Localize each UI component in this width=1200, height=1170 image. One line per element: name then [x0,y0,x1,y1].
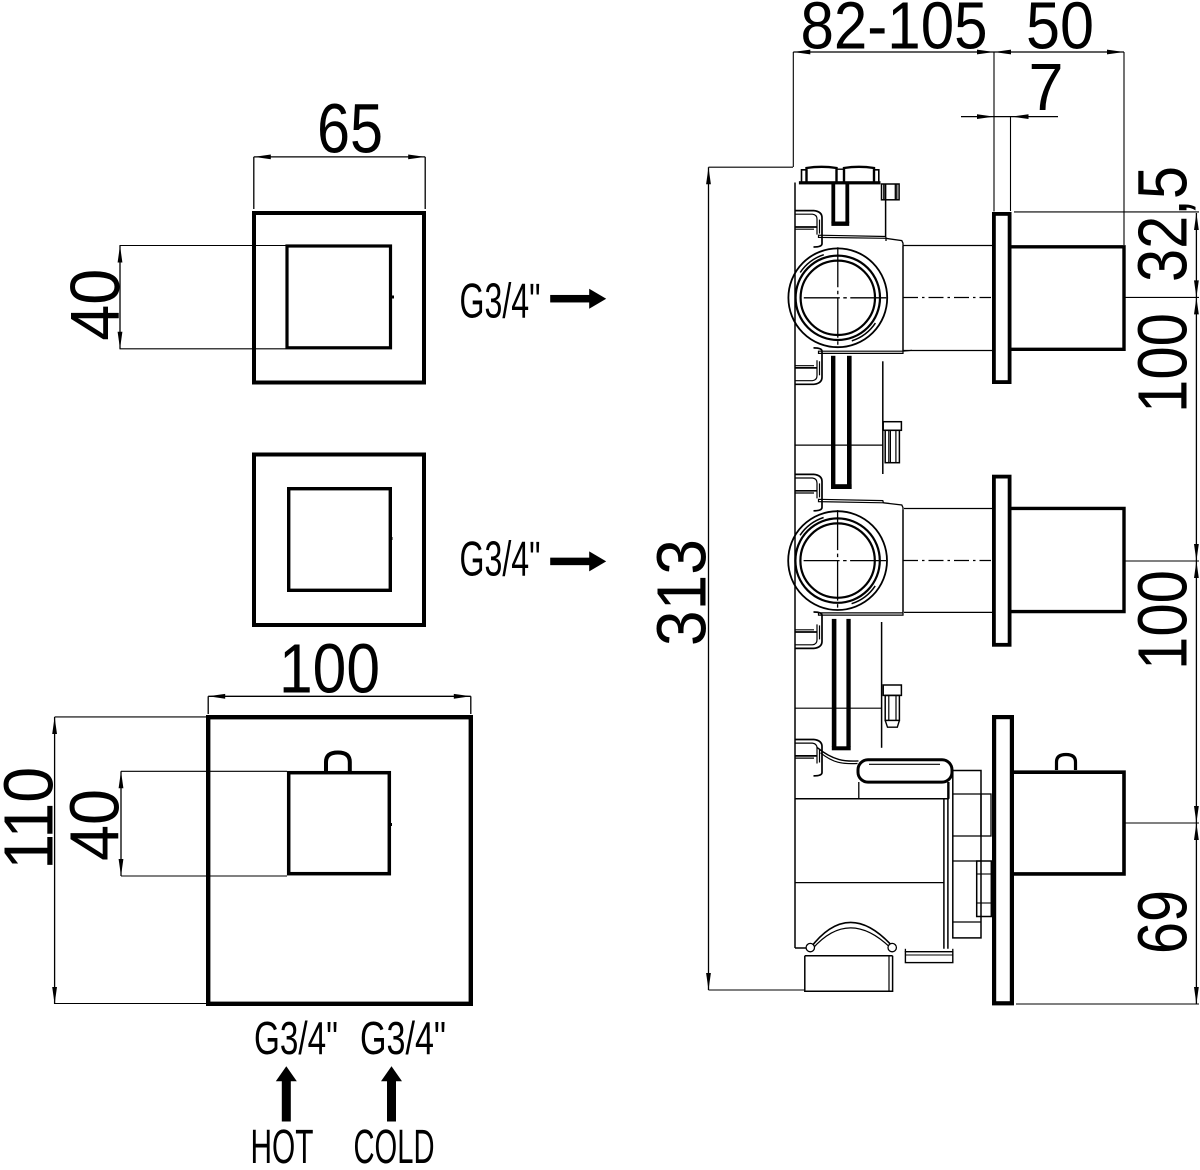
svg-text:G3/4": G3/4" [360,1012,446,1064]
svg-text:100: 100 [279,630,380,708]
svg-text:100: 100 [1124,313,1200,413]
svg-text:G3/4": G3/4" [460,533,541,587]
svg-text:HOT: HOT [251,1120,314,1165]
svg-text:100: 100 [1124,570,1200,670]
svg-text:COLD: COLD [354,1120,435,1165]
svg-text:40: 40 [56,789,134,861]
svg-text:82-105: 82-105 [801,0,988,64]
svg-text:7: 7 [1029,50,1064,125]
svg-text:32,5: 32,5 [1124,166,1200,282]
svg-text:313: 313 [643,539,721,646]
svg-text:G3/4": G3/4" [254,1012,338,1064]
svg-text:69: 69 [1124,890,1200,954]
svg-text:G3/4": G3/4" [460,275,541,329]
svg-text:40: 40 [56,269,134,341]
svg-text:65: 65 [317,90,383,168]
